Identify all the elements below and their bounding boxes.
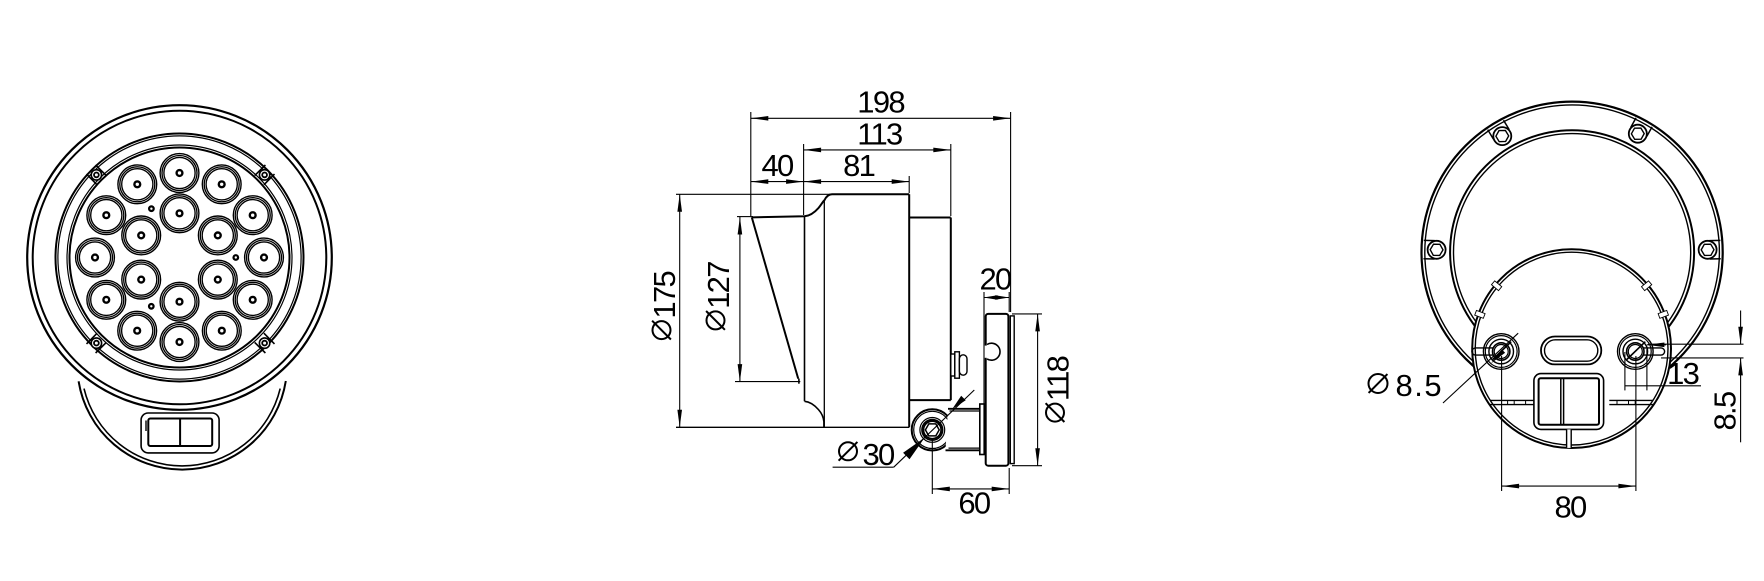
wall plate (side) xyxy=(986,314,1009,466)
front view: trim ring outer edge xyxy=(56,134,304,382)
hinge hex bolt xyxy=(925,424,939,436)
front trim screw tab at 45 deg xyxy=(264,174,275,185)
svg-text:8.5: 8.5 xyxy=(1396,368,1444,403)
bezel/body joint xyxy=(804,216,806,401)
dim 198 xyxy=(750,112,752,216)
LED lens inner #1 xyxy=(160,194,199,233)
svg-text:60: 60 xyxy=(958,485,991,520)
dim 113 xyxy=(803,144,805,215)
LED lens outer #2 xyxy=(118,165,157,204)
dim phi175 xyxy=(676,193,838,195)
right mounting screw keyhole xyxy=(1643,347,1661,349)
LED lens inner #3 xyxy=(122,260,161,299)
clamp block (back) xyxy=(1534,374,1604,430)
head top edge xyxy=(752,194,909,217)
front trim screw at 45 deg xyxy=(259,170,269,180)
svg-text:81: 81 xyxy=(843,148,875,183)
dim 81 / 40 xyxy=(908,176,910,193)
cable gland xyxy=(951,354,955,376)
dim phi8.5 leader xyxy=(1443,333,1518,403)
front trim screw at 315 deg xyxy=(259,338,269,348)
front trim screw tab at 315 deg xyxy=(255,342,266,353)
LED lens outer #1 xyxy=(160,154,199,193)
PCB screw dots xyxy=(234,255,239,260)
dim phi118 xyxy=(1012,313,1042,315)
disc rim breaks xyxy=(1658,310,1668,318)
svg-text:127: 127 xyxy=(701,262,736,309)
svg-text:40: 40 xyxy=(761,148,794,183)
dim 8.5 xyxy=(1648,343,1744,345)
block stem xyxy=(1567,429,1572,448)
LED lens outer #4 xyxy=(76,238,115,277)
LED lens outer #6 xyxy=(118,311,157,350)
svg-text:20: 20 xyxy=(979,262,1012,297)
dim 60 xyxy=(931,441,933,494)
LED lens outer #10 xyxy=(245,238,284,277)
gasket layer xyxy=(1010,316,1014,464)
front view: lamp outer rim xyxy=(27,105,332,410)
keyhole notch on plate edge xyxy=(985,346,988,358)
body right edge xyxy=(908,194,910,427)
svg-text:8.5: 8.5 xyxy=(1708,392,1743,430)
bezel ring contour line xyxy=(823,200,825,427)
LED lens inner #4 xyxy=(160,282,199,321)
front face (slanted) xyxy=(752,217,798,378)
LED lens outer #8 xyxy=(202,311,241,350)
front view: trim ring inner edge xyxy=(67,145,292,370)
LED lens outer #9 xyxy=(233,280,272,319)
svg-text:13: 13 xyxy=(1667,356,1699,391)
bracket arm xyxy=(946,404,985,455)
LED lens inner #2 xyxy=(122,216,161,255)
hinge boss xyxy=(912,409,953,450)
wall plate disc xyxy=(1472,249,1671,448)
svg-text:118: 118 xyxy=(1041,356,1076,401)
LED lens outer #7 xyxy=(160,323,199,362)
svg-text:198: 198 xyxy=(857,84,904,119)
left mounting screw keyhole xyxy=(1476,347,1494,349)
front trim screw tab at 225 deg xyxy=(87,333,98,344)
front trim screw tab at 135 deg xyxy=(96,165,107,176)
central stadium slot xyxy=(1541,337,1601,365)
front trim screw at 135 deg xyxy=(91,170,101,180)
boss at 1.0 deg xyxy=(1710,258,1721,260)
boss at 121.0 deg xyxy=(1504,120,1510,129)
front trim screw at 225 deg xyxy=(91,338,101,348)
LED lens inner #5 xyxy=(198,260,237,299)
boss at 179.0 deg xyxy=(1424,239,1435,241)
svg-text:80: 80 xyxy=(1554,490,1587,525)
dim 13 xyxy=(1624,352,1626,390)
dim 20 xyxy=(983,292,985,404)
LED lens outer #12 xyxy=(202,165,241,204)
dim phi30 leader xyxy=(833,466,894,468)
hinge pivot rings xyxy=(920,418,945,443)
back section xyxy=(909,217,951,219)
dim 80 xyxy=(1501,356,1503,491)
arm wings behind disc xyxy=(1491,399,1534,401)
svg-text:113: 113 xyxy=(857,117,902,152)
front view: clamp block xyxy=(141,413,219,453)
back view: lamp outer rim xyxy=(1422,102,1723,403)
side view: head body fill xyxy=(752,194,909,427)
LED lens outer #5 xyxy=(87,280,126,319)
dim phi127 xyxy=(737,216,753,218)
LED lens outer #3 xyxy=(87,196,126,235)
LED lens outer #11 xyxy=(233,196,272,235)
head bottom edge xyxy=(798,379,800,384)
back view: housing inner circle xyxy=(1450,130,1694,374)
boss at 61.0 deg xyxy=(1647,127,1652,137)
svg-text:175: 175 xyxy=(647,272,682,319)
front view: mounting bracket bowl arc xyxy=(79,381,286,470)
svg-text:30: 30 xyxy=(863,437,896,472)
LED lens inner #6 xyxy=(198,216,237,255)
